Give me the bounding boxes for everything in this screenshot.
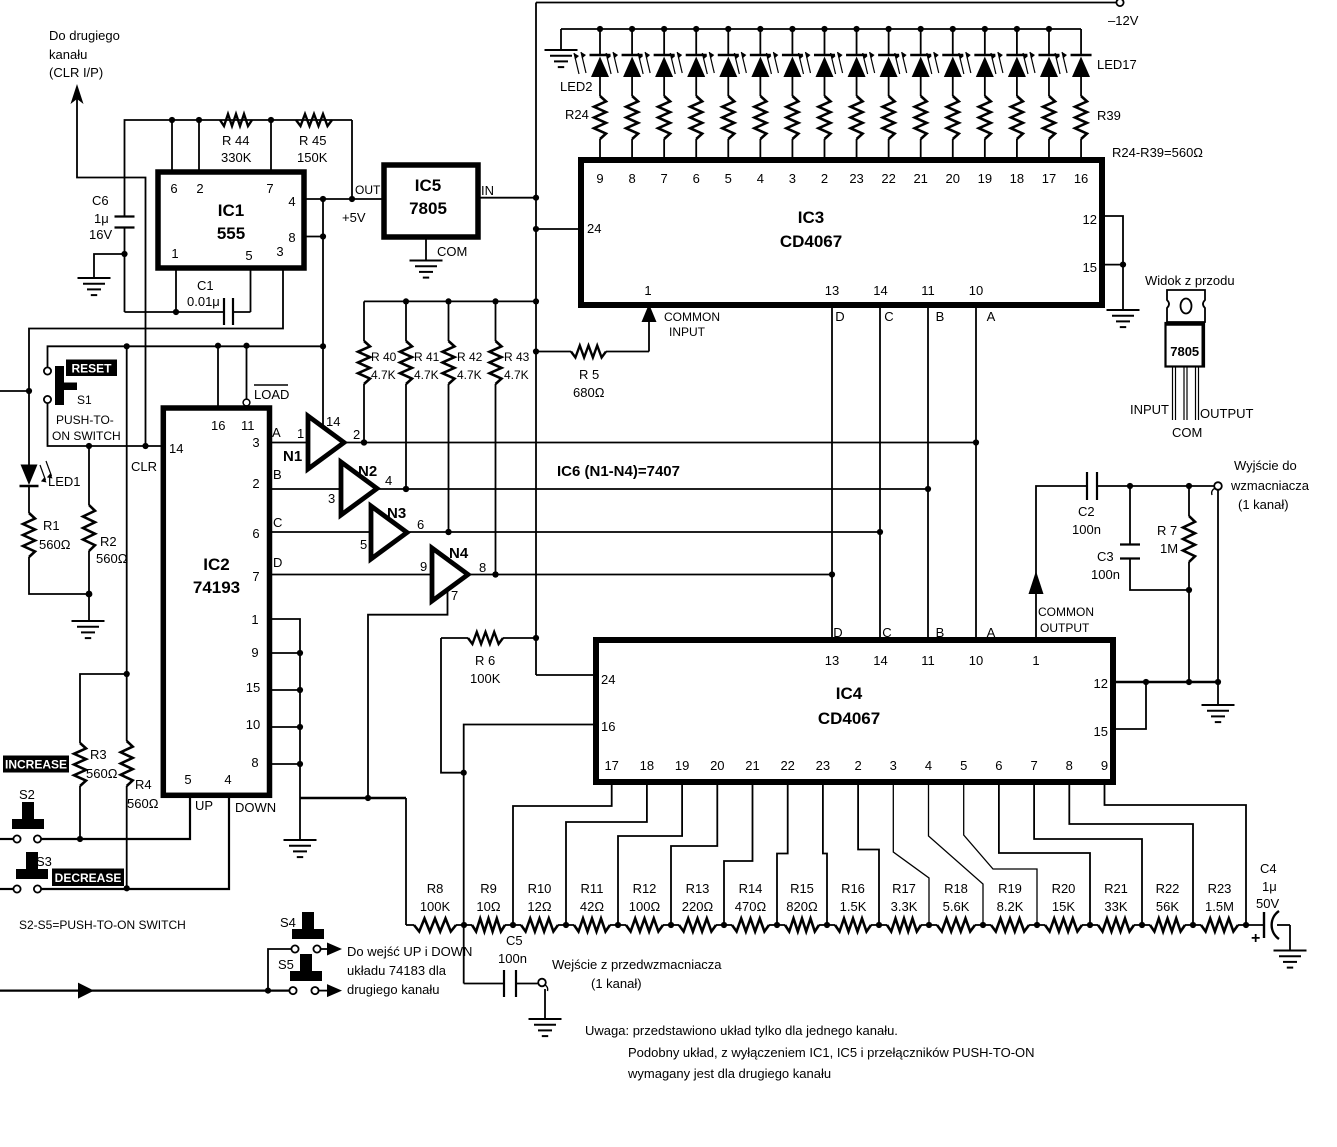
svg-text:+: + [1251,930,1260,947]
wire IC4 pin12 [1113,681,1218,683]
wire C1 line left [125,311,225,313]
wire pin2 to tap J9 [858,782,879,925]
svg-text:560Ω: 560Ω [39,537,71,552]
COMMON OUTPUT arrow [1029,571,1044,594]
IC1 box [158,172,304,268]
svg-text:R 6: R 6 [475,653,495,668]
label DECREASE [52,869,124,887]
wire C6 tap to ground [94,254,125,277]
junction R41-N2 [403,486,409,492]
wire to ground R1R2 [88,594,90,620]
svg-text:IC4: IC4 [836,684,863,703]
wire pin1 to R5 [648,322,650,352]
junction pin bus y727 [297,724,303,730]
svg-text:(1 kanał): (1 kanał) [1238,497,1289,512]
wire bus C [879,305,881,640]
junction pin bus y764 [297,761,303,767]
junction pin4-b [349,196,355,202]
svg-text:wymagany jest dla drugiego kan: wymagany jest dla drugiego kanału [627,1066,831,1081]
svg-text:7: 7 [1030,758,1037,773]
svg-text:20: 20 [946,171,960,186]
svg-text:R 43: R 43 [504,350,530,364]
svg-text:(1 kanał): (1 kanał) [591,976,642,991]
svg-text:COMMON: COMMON [1038,605,1094,619]
7805 package tab [1167,290,1205,322]
junction pin bus y690 [297,687,303,693]
resistor R41 [400,341,412,384]
LED1 light arrows [40,465,46,480]
wire R28 to IC3 pin [727,139,729,160]
wire R35 to IC3 pin [952,139,954,160]
resistor R7 [1183,516,1195,562]
svg-text:7: 7 [451,588,458,603]
wire IC3 pin15 [1102,264,1123,266]
IC2 box [163,408,269,795]
svg-text:R21: R21 [1104,881,1128,896]
svg-text:1.5M: 1.5M [1205,899,1234,914]
wire IC2 pin stub y727 [270,726,301,728]
svg-text:6: 6 [995,758,1002,773]
svg-text:15: 15 [1094,724,1108,739]
junction N4-busD [829,571,835,577]
svg-text:Podobny układ, z wyłączeniem I: Podobny układ, z wyłączeniem IC1, IC5 i … [628,1045,1035,1060]
svg-text:RESET: RESET [71,362,112,376]
svg-text:22: 22 [881,171,895,186]
svg-text:–12V: –12V [1108,13,1139,28]
svg-text:7: 7 [252,569,259,584]
svg-text:3: 3 [789,171,796,186]
wire N2 out [377,488,928,490]
svg-text:9: 9 [420,559,427,574]
wire S1 bottom to CLR [48,403,164,446]
svg-text:680Ω: 680Ω [573,385,605,400]
wire ground bus thick [300,797,406,800]
wire pin20 to tap J5 [671,782,717,925]
svg-text:21: 21 [745,758,759,773]
capacitor C4 [1246,924,1264,926]
svg-text:R15: R15 [790,881,814,896]
svg-text:R23: R23 [1208,881,1232,896]
svg-text:9: 9 [596,171,603,186]
svg-text:11: 11 [921,283,935,298]
wire R36 to IC3 pin [984,139,986,160]
wire pin1 IC4 to C2 [1036,486,1087,640]
LED16 [1046,26,1052,32]
wire R40 bottom [363,384,365,443]
svg-text:IC6 (N1-N4)=7407: IC6 (N1-N4)=7407 [557,463,680,480]
resistor R30 [786,96,798,139]
svg-text:C: C [884,309,893,324]
svg-text:kanału: kanału [49,47,87,62]
junction R5 bus [533,348,539,354]
junction R41 output [403,486,409,492]
wire S2 to UP [41,795,190,839]
svg-text:4: 4 [925,758,932,773]
svg-text:8: 8 [288,230,295,245]
svg-text:17: 17 [604,758,618,773]
svg-text:+5V: +5V [342,210,366,225]
junction R6-IC4pin16 [461,770,467,776]
junction ladder C4 [1243,922,1249,928]
svg-text:B: B [936,625,945,640]
7805 leg com [1183,367,1185,421]
svg-text:16: 16 [601,719,615,734]
junction R41 top [403,298,409,304]
svg-text:IC2: IC2 [203,555,229,574]
wire N4 pin7 route [368,590,448,799]
svg-text:14: 14 [169,441,183,456]
svg-text:330K: 330K [221,150,252,165]
wire pin1 down [175,268,177,312]
svg-text:A: A [987,625,996,640]
arrow S4 out [327,943,342,956]
junction R42-N3 [445,529,451,535]
wire pin9 to C4 node [1105,782,1247,925]
svg-text:560Ω: 560Ω [86,766,118,781]
svg-text:6: 6 [417,517,424,532]
svg-text:R24-R39=560Ω: R24-R39=560Ω [1112,145,1203,160]
junction ladder J15 [1190,922,1196,928]
svg-text:5: 5 [360,537,367,552]
wire second channel stub y391 [0,390,29,392]
LED3 [629,26,635,32]
svg-text:ON SWITCH: ON SWITCH [52,429,121,443]
resistor R20 [1037,924,1045,926]
junction ladder J8 [824,922,830,928]
svg-text:18: 18 [1010,171,1024,186]
svg-text:1: 1 [1032,653,1039,668]
junction pin12-R7 [1186,679,1192,685]
wire R29 to IC3 pin [759,139,761,160]
LED11 [886,26,892,32]
wire IC2 B to N2 [270,488,342,490]
switch S4 actuator [302,912,314,933]
ground below C6 [78,277,111,279]
svg-text:R18: R18 [944,881,968,896]
svg-text:N1: N1 [283,448,302,465]
svg-text:B: B [273,467,282,482]
svg-text:C1: C1 [197,278,214,293]
wire R38 to IC3 pin [1048,139,1050,160]
svg-text:1: 1 [171,246,178,261]
svg-text:układu 74183 dla: układu 74183 dla [347,963,447,978]
wire pin17 to tap J2 [513,782,612,925]
IC4 box [596,640,1113,782]
svg-text:IC3: IC3 [798,208,824,227]
svg-text:5: 5 [725,171,732,186]
ground C4 [1274,950,1307,952]
wire C3 lower [1130,559,1189,591]
junction ladder J5 [668,922,674,928]
svg-text:560Ω: 560Ω [96,551,128,566]
wire pin8 stub [304,236,323,238]
junction +5V rail end [320,343,326,349]
resistor R8 [406,924,414,926]
svg-text:INPUT: INPUT [669,325,706,339]
switch S5 actuator [300,954,312,975]
wire rail to LOAD circle [246,346,248,399]
7805 leg output [1195,367,1197,421]
junction ladder J11 [980,922,986,928]
COMMON INPUT arrow [642,304,657,322]
svg-text:R11: R11 [581,881,604,896]
svg-text:7: 7 [661,171,668,186]
svg-text:820Ω: 820Ω [786,899,818,914]
svg-text:R16: R16 [841,881,865,896]
capacitor C5 [463,925,465,984]
junction R7 top [1186,483,1192,489]
7805 package body [1166,323,1205,367]
svg-text:INCREASE: INCREASE [5,758,67,772]
wire rail to pin16 [217,346,219,408]
junction rail pin11 [243,343,249,349]
resistor R22 [1142,924,1150,926]
svg-text:1M: 1M [1160,541,1178,556]
wire S1 top to LOAD rail [48,346,324,367]
junction N4 pin7 gnd [365,795,371,801]
wire IC2 pin stub y690 [270,689,301,691]
svg-text:3: 3 [276,244,283,259]
svg-text:DECREASE: DECREASE [55,871,122,885]
resistor R10 [513,924,521,926]
junction R40-N1 [361,439,367,445]
junction pin4-a [320,196,326,202]
wire input terminal ground [544,989,546,1018]
resistor R3 [74,743,86,786]
junction ladder J2 [510,922,516,928]
wire pin3 to left rail [29,268,283,391]
resistor R32 [851,96,863,139]
svg-text:8: 8 [1066,758,1073,773]
wire second channel bottom [0,989,290,991]
wire pin22 to tap J7 [777,782,788,925]
resistor R24 [594,96,606,139]
svg-text:2: 2 [854,758,861,773]
wire bus B [927,305,929,640]
svg-text:23: 23 [816,758,830,773]
svg-text:18: 18 [640,758,654,773]
wire R40-43 top bus [364,300,536,302]
svg-text:1: 1 [251,612,258,627]
wire pin5 to tap J12 [964,782,1037,925]
svg-text:10: 10 [969,283,983,298]
svg-text:R 45: R 45 [299,133,326,148]
svg-text:560Ω: 560Ω [127,796,159,811]
resistor R43 [490,341,502,384]
junction ladder J9 [876,922,882,928]
svg-text:C5: C5 [506,933,523,948]
svg-text:56K: 56K [1156,899,1179,914]
junction ladder J3 [563,922,569,928]
wire R42 bottom [448,384,450,532]
label RESET [66,360,117,377]
svg-text:R14: R14 [739,881,763,896]
junction ladder J7 [774,922,780,928]
wire -12V rail [536,2,1116,4]
junction N2-busB [925,486,931,492]
svg-text:OUTPUT: OUTPUT [1200,406,1254,421]
svg-text:16: 16 [211,418,225,433]
svg-text:100Ω: 100Ω [629,899,661,914]
wire R34 to IC3 pin [920,139,922,160]
svg-text:CD4067: CD4067 [818,709,880,728]
wire main vertical bus x536 [535,3,537,676]
svg-text:8: 8 [628,171,635,186]
LED8 [789,26,795,32]
svg-text:11: 11 [921,653,935,668]
arrow on bottom wire [78,983,94,999]
resistor R19 [983,924,991,926]
svg-text:C4: C4 [1260,861,1277,876]
wire R1 bottom [29,557,89,594]
wire bus to IC4 pin24 [536,674,596,676]
svg-text:100K: 100K [470,671,501,686]
wire pin7 to tap J14 [1034,782,1142,925]
svg-text:3: 3 [252,435,259,450]
svg-text:1: 1 [644,283,651,298]
svg-text:R4: R4 [135,777,152,792]
wire pin19 to tap J4 [618,782,682,925]
svg-text:R8: R8 [427,881,444,896]
wire pin21 to tap J6 [724,782,753,925]
LED15 [1014,26,1020,32]
7805 leg input [1172,367,1174,421]
junction pin15 [1120,262,1126,268]
svg-text:220Ω: 220Ω [682,899,714,914]
junction pin12-gnd [1215,679,1221,685]
junction R43-N4 [492,571,498,577]
svg-text:10: 10 [969,653,983,668]
junction ladder J10 [926,922,932,928]
svg-text:20: 20 [710,758,724,773]
arrow S5 out [327,984,342,997]
wire IC4 gnd stub [1217,682,1219,704]
svg-text:LED1: LED1 [48,474,81,489]
wire IC3 gnd stub [1122,265,1124,309]
svg-text:R10: R10 [528,881,552,896]
svg-text:N4: N4 [449,545,469,562]
ground LED bus [545,49,578,51]
wire IC3 pin12 [1102,216,1123,265]
svg-text:100n: 100n [498,951,527,966]
wire rail to pin2 [198,120,200,172]
wire +5V into N1 pin14 [322,346,324,427]
junction pin1 C1 line [173,309,179,315]
wire IN to vertical bus [478,197,536,199]
junction N3-busC [877,529,883,535]
svg-text:UP: UP [195,798,213,813]
svg-text:S5: S5 [278,957,294,972]
junction R40 output [361,439,367,445]
svg-text:100n: 100n [1091,567,1120,582]
wire R27 to IC3 pin [695,139,697,160]
resistor R44 [220,114,252,126]
svg-text:5: 5 [245,248,252,263]
wire R30 to IC3 pin [791,139,793,160]
wire pin bus to ground [299,798,301,840]
junction C6 ground tap [121,251,127,257]
resistor R27 [690,96,702,139]
junction pin12-15 [1143,679,1149,685]
svg-text:8.2K: 8.2K [997,899,1024,914]
svg-text:7805: 7805 [409,199,447,218]
svg-text:15: 15 [246,680,260,695]
svg-text:8: 8 [251,755,258,770]
terminal LOAD circle [243,399,250,406]
resistor R2 [83,505,95,551]
wire IC2 D to N4 [270,574,433,576]
wire tap J1 down [463,773,465,925]
wire IC5 COM down [425,237,427,260]
svg-text:0.01μ: 0.01μ [187,294,220,309]
svg-text:15K: 15K [1052,899,1075,914]
LED12 [918,26,924,32]
wire C6 down to C1 line [124,254,126,312]
resistor R34 [915,96,927,139]
junction C3 top [1127,483,1133,489]
wire LED anode bus [561,28,1081,30]
svg-text:23: 23 [849,171,863,186]
svg-text:4.7K: 4.7K [457,368,482,382]
IC3 box [581,160,1102,305]
ground input terminal [529,1018,562,1020]
svg-text:A: A [272,425,281,440]
svg-text:16V: 16V [89,227,112,242]
wire IC2 A to N1 [270,442,309,444]
wire N3 out [407,531,880,533]
svg-text:42Ω: 42Ω [580,899,604,914]
junction R43 output [492,571,498,577]
svg-text:S3: S3 [36,854,52,869]
svg-text:INPUT: INPUT [1130,402,1169,417]
wire R43 bottom [495,384,497,575]
wire IC2 pin1 stub [270,619,301,798]
resistor R42 [443,341,455,384]
node CLR-I/P arrow to second channel [71,84,84,104]
svg-text:7: 7 [266,181,273,196]
svg-text:9: 9 [1101,758,1108,773]
svg-text:16: 16 [1074,171,1088,186]
wire R37 to IC3 pin [1016,139,1018,160]
svg-text:4: 4 [385,473,392,488]
wire R26 to IC3 pin [663,139,665,160]
svg-text:IC5: IC5 [415,176,441,195]
wire to IC4 pin16 [464,725,596,773]
resistor R11 [566,924,574,926]
wire R25 to IC3 pin [631,139,633,160]
svg-text:COMMON: COMMON [664,310,720,324]
resistor R37 [1011,96,1023,139]
svg-text:6: 6 [693,171,700,186]
svg-text:R20: R20 [1052,881,1076,896]
switch S2 contacts [13,835,20,842]
svg-text:22: 22 [780,758,794,773]
junction pin7 rail [268,117,274,123]
svg-text:R19: R19 [998,881,1022,896]
resistor R45 [296,114,332,126]
svg-text:A: A [987,309,996,324]
wire LED bus ground stub [560,29,562,49]
resistor R25 [626,96,638,139]
wire pin8 to tap J15 [1069,782,1193,925]
wire R3 branch [80,674,127,743]
wire R42 top [448,301,450,341]
resistor R6 [468,632,503,644]
svg-text:2: 2 [821,171,828,186]
svg-text:S2: S2 [19,787,35,802]
svg-text:S4: S4 [280,915,296,930]
svg-text:4: 4 [288,194,295,209]
